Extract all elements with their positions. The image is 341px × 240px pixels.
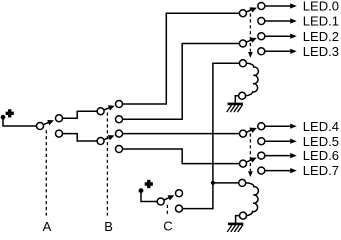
relay switch S4 (LED.6/LED.7) [240,152,265,174]
svg-text:LED.6: LED.6 [303,148,339,163]
junction node (coil feed) [211,181,215,185]
wire to LED.5 with arrow [265,139,297,144]
svg-text:LED.0: LED.0 [303,0,339,14]
mechanical link A (dashed) [45,130,47,215]
power supply 2: + terminal [139,180,153,193]
mechanical link relay K2 to switches S3,S4 (dashed with arrow) [248,128,253,178]
ground GND2 (ground) [227,224,243,232]
mechanical link C (dashed) [166,205,168,216]
svg-text:LED.5: LED.5 [303,134,339,149]
switch A (SPDT selector) [37,115,63,137]
wire B1 throw2 to S2 common [123,44,240,120]
switch B1 (SPDT) [97,101,122,123]
wire to LED.4 with arrow [265,124,297,129]
wire to ground GND2 [236,216,240,223]
relay switch S2 (LED.2/LED.3) [239,33,264,55]
wire to LED.3 with arrow [265,49,297,54]
wire B2 throw2 to S4 common [123,149,240,164]
wire to LED.1 with arrow [265,18,297,23]
wire to ground GND1 [235,96,238,103]
wire switch C throw2 to relay coils [183,63,240,208]
relay switch S3 (LED.4/LED.5) [240,123,265,145]
svg-text:LED.2: LED.2 [303,29,339,44]
mechanical link relay K1 to switches S1,S2 (dashed with arrow) [248,8,253,58]
relay switch S1 (LED.0/LED.1) [239,3,264,25]
wire A throw2 to B2 common [63,134,98,141]
svg-text:A: A [43,219,52,232]
svg-text:B: B [104,219,113,232]
wire B2 throw1 to S3 common [123,133,240,135]
svg-text:LED.1: LED.1 [303,14,339,29]
wire B1 throw1 to S1 common [123,13,240,104]
ground GND1 (ground) [227,104,243,112]
wire junction to coil K2 [213,182,239,184]
wire from power supply 1 [3,117,36,126]
mechanical link B (dashed) [106,113,108,216]
svg-text:LED.7: LED.7 [303,163,339,178]
wire to LED.7 with arrow [265,168,297,173]
relay coil K1 [239,60,259,100]
svg-text:LED.4: LED.4 [303,119,339,134]
svg-text:C: C [163,219,172,232]
wire A throw1 to B1 common [63,111,98,118]
relay coil K2 [239,179,259,219]
wire to LED.2 with arrow [265,34,297,39]
wire to LED.6 with arrow [265,153,297,158]
wire from power supply 2 [141,191,157,202]
switch C (relay energize) [157,190,182,212]
svg-text:LED.3: LED.3 [303,44,339,59]
power supply 1: + terminal [1,109,14,120]
wire to LED.0 with arrow [265,3,297,8]
switch B2 (SPDT) [97,130,122,152]
